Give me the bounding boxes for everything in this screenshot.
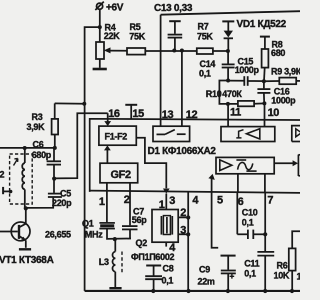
capacitor C16 [257,81,296,106]
wire input top left [0,147,56,149]
svg-text:5: 5 [217,195,223,207]
svg-text:13: 13 [162,109,174,121]
svg-text:3: 3 [169,195,175,207]
svg-text:16: 16 [108,108,120,120]
wire top +6V rail [161,11,300,15]
node R4 top junction [98,25,102,29]
capacitor C10 (series) [237,208,265,239]
node R3 bottom / C6 top [53,146,57,150]
inductor L2 with trimmer [0,148,25,208]
svg-text:R7: R7 [198,22,209,32]
crystal Q1 26,655 MHz [45,183,131,240]
wire IC pin6 stub [237,174,239,193]
svg-text:MHz: MHz [85,230,103,240]
node R3 top on bus [82,102,86,106]
wire IC pin7 down [264,192,266,251]
resistor R4 (trimmer) [96,23,120,68]
node pin4 wire on bus [186,289,190,293]
node pin7 wire on bus [263,289,267,293]
filter Q2 ФП1П6002 [131,210,178,263]
svg-text:11: 11 [230,107,241,119]
resistor R10 feedback loop [206,81,265,107]
svg-text:C5: C5 [60,189,71,199]
node antenna on shield [9,190,13,194]
filter pin 4 stub [165,242,167,246]
svg-text:680p: 680p [32,150,52,160]
svg-text:0,1: 0,1 [242,218,254,228]
wire R7 to VD1 node [213,50,228,52]
svg-text:1: 1 [159,199,165,211]
node C8 on bus [151,289,155,293]
svg-text:R6: R6 [277,261,288,271]
block right edge (cut) [298,155,300,176]
svg-text:0,1: 0,1 [162,275,174,285]
svg-text:3: 3 [180,225,186,237]
resistor R6 [274,231,301,291]
svg-text:1: 1 [297,272,301,282]
wire +6V stub down to R4 [99,9,101,27]
svg-text:VD1 КД522: VD1 КД522 [237,19,287,30]
svg-text:GF2: GF2 [111,169,131,181]
capacitor C13 [154,3,193,50]
svg-text:10: 10 [268,107,280,119]
antenna input terminal [3,187,11,194]
svg-text:R5: R5 [130,22,141,32]
wire F1-F2 output to filter (IC pin 3) with arrow [136,138,169,210]
wire bottom +6V bus [85,290,300,292]
resistor R5 [127,22,146,55]
svg-text:2: 2 [0,169,5,179]
svg-text:ФП1П6002: ФП1П6002 [131,252,175,262]
ground below R4 [93,68,107,71]
svg-text:D1 КФ1066ХА2: D1 КФ1066ХА2 [148,146,217,157]
svg-text:56p: 56p [132,215,147,225]
svg-text:26,655: 26,655 [45,230,71,240]
svg-text:L3: L3 [99,257,109,267]
svg-text:0,1: 0,1 [199,69,211,79]
inductor L3 [99,239,122,287]
svg-text:2: 2 [180,207,186,219]
transistor VT1 КТ368А [0,208,54,266]
svg-text:1: 1 [99,196,105,208]
IC D1 outline [90,119,300,193]
block amplifier-limiter [216,157,274,173]
svg-text:Q1: Q1 [82,219,94,229]
wire pin11 vertical [227,104,229,127]
ground below VT1 [19,248,31,250]
node C9 on bus [226,289,230,293]
svg-text:R9 3,9К: R9 3,9К [271,67,300,77]
capacitor C7 [122,183,147,239]
svg-text:470К: 470К [222,89,242,99]
node R8 bottom [262,79,266,83]
node filter pin3 [186,232,190,236]
node C10 on pin7 wire [263,232,267,236]
diode VD1 КД522 [222,19,286,51]
capacitor C9 electrolytic [198,256,236,292]
wire R4 wiper arrow to R5 [104,47,127,53]
svg-text:6: 6 [238,196,244,208]
node pin12 top [180,49,184,53]
pin 15 terminal bar [125,105,144,120]
block switch (pins 13/12) [153,126,190,141]
svg-text:22K: 22K [104,31,120,41]
capacitor C6 [32,140,61,179]
wire amp output to right block with arrow [274,160,298,166]
wire pin10 vertical [264,103,266,126]
wire IC pin4 down to bus [187,192,189,291]
svg-text:22m: 22m [198,276,215,286]
svg-text:C9: C9 [199,265,210,275]
filter pin 2 wire [178,216,188,218]
capacitor C5 [26,179,72,209]
capacitor C11 [244,252,274,291]
node VD1 bottom [226,49,230,53]
svg-text:C13 0,33: C13 0,33 [154,3,193,14]
power +6V terminal [95,2,124,14]
wire R3 top to bus [55,102,85,104]
wire IC pin6 down [236,192,238,234]
capacitor C15 [222,51,260,80]
svg-text:220p: 220p [52,198,72,208]
svg-text:F1-F2: F1-F2 [105,131,128,141]
svg-text:75K: 75K [129,32,145,42]
wire IC pin5 down and right [212,192,219,247]
node filter pin2 [186,215,190,219]
wire +6V junction to left bus [85,27,100,291]
svg-text:1000p: 1000p [235,65,260,75]
svg-text:C8: C8 [163,264,174,274]
block level/comparator (pins 11/10) [221,127,275,142]
wire pin12 vertical [181,51,183,127]
dashed shield box L2 [10,154,33,204]
node R6 on bus [290,289,294,293]
svg-text:2: 2 [124,194,130,206]
ground below L3 [109,287,121,289]
resistor R7 [197,22,214,55]
block top right corner (cut) [292,126,302,142]
filter pin 3 wire [178,233,188,235]
svg-text:Q2: Q2 [136,238,148,248]
node crystal/L3 [113,237,117,241]
svg-text:R10: R10 [206,89,222,99]
svg-text:C11: C11 [244,259,259,269]
svg-text:C6: C6 [33,140,44,150]
resistor R9 [264,67,302,85]
svg-text:VT1 КТ368А: VT1 КТ368А [0,255,54,266]
svg-text:12: 12 [186,109,198,121]
wire R5 to R7 [145,50,197,52]
node L2 bottom / VT1 collector [24,206,28,210]
svg-text:75K: 75K [197,31,213,41]
resistor R3 [27,103,59,147]
node pin10 top [262,101,266,105]
node pin11 top [226,102,230,106]
resistor R8 [260,37,286,82]
wire IC pin7 stub [264,174,266,193]
wire pin13 vertical from top rail [160,15,162,127]
node C15 bottom [226,79,230,83]
wire GF2 to F1-F2 with arrow [104,145,111,163]
node L2 top [23,146,27,150]
wire pin16 to C6/C5 junction [54,113,107,178]
svg-text:10K: 10K [274,270,290,280]
block F1-F2 [99,126,136,145]
svg-text:3,9K: 3,9K [27,122,46,132]
svg-text:680: 680 [271,48,285,58]
capacitor C14 (in series wire) [199,59,264,86]
wire pin16 into F1-F2 with arrow [104,113,111,126]
svg-text:R3: R3 [32,112,43,122]
capacitor C8 [145,264,173,291]
node C13 bottom [172,49,176,53]
svg-text:C10: C10 [242,208,258,218]
wire IC pin5 to amp with arrow [208,174,214,193]
svg-text:0,1: 0,1 [244,269,256,279]
svg-text:+6V: +6V [106,2,124,13]
block GF2 [100,163,138,183]
node C6/C5 junction [52,177,56,181]
svg-text:15: 15 [132,108,144,120]
svg-text:7: 7 [267,194,273,206]
svg-text:1000p: 1000p [271,96,296,106]
